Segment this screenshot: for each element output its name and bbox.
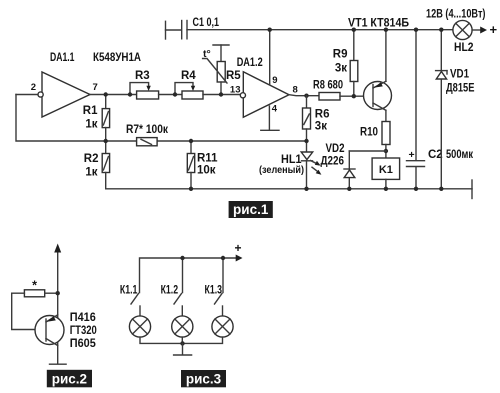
svg-text:R11: R11 <box>197 153 218 165</box>
svg-text:VD1: VD1 <box>450 69 470 81</box>
svg-text:R4: R4 <box>181 70 196 82</box>
svg-text:4: 4 <box>272 104 278 115</box>
svg-text:рис.2: рис.2 <box>52 371 87 386</box>
svg-text:R5: R5 <box>226 70 241 82</box>
svg-text:(зеленый): (зеленый) <box>259 164 304 176</box>
svg-text:C2: C2 <box>428 149 443 161</box>
svg-text:3к: 3к <box>315 121 327 133</box>
svg-text:К1.1: К1.1 <box>120 285 138 297</box>
svg-text:1к: 1к <box>85 119 97 131</box>
svg-text:R10: R10 <box>360 127 378 139</box>
svg-text:R8 680: R8 680 <box>313 80 343 92</box>
svg-text:8: 8 <box>293 84 298 95</box>
svg-text:R7* 100к: R7* 100к <box>126 124 168 136</box>
svg-text:+: + <box>234 241 241 255</box>
svg-text:VD2: VD2 <box>326 143 345 155</box>
svg-text:13: 13 <box>230 85 241 96</box>
svg-text:К1.2: К1.2 <box>161 285 179 297</box>
svg-text:+: + <box>409 149 415 161</box>
svg-text:R6: R6 <box>315 109 330 121</box>
svg-text:DA1.2: DA1.2 <box>237 57 263 69</box>
svg-text:П416: П416 <box>70 312 96 324</box>
svg-text:П605: П605 <box>70 338 97 350</box>
svg-text:2: 2 <box>31 82 36 93</box>
svg-text:12В (4...10Вт): 12В (4...10Вт) <box>426 9 486 21</box>
svg-text:500мк: 500мк <box>446 149 473 161</box>
svg-text:HL2: HL2 <box>454 42 474 54</box>
svg-text:рис.3: рис.3 <box>186 371 222 386</box>
svg-text:3к: 3к <box>335 63 347 75</box>
svg-text:R1: R1 <box>83 105 98 117</box>
svg-text:ГТ320: ГТ320 <box>70 325 97 337</box>
svg-text:1к: 1к <box>85 167 97 179</box>
svg-text:9: 9 <box>272 75 277 86</box>
svg-text:K1: K1 <box>379 164 393 176</box>
svg-text:R2: R2 <box>84 153 99 165</box>
svg-text:рис.1: рис.1 <box>233 202 269 217</box>
svg-text:Д226: Д226 <box>321 156 345 168</box>
svg-text:C1 0,1: C1 0,1 <box>193 17 220 29</box>
svg-text:К548УН1А: К548УН1А <box>93 52 141 64</box>
svg-text:R3: R3 <box>135 70 150 82</box>
svg-text:+: + <box>490 22 498 37</box>
svg-text:VT1 КТ814Б: VT1 КТ814Б <box>348 18 409 30</box>
svg-text:t°: t° <box>203 48 211 60</box>
svg-text:7: 7 <box>93 82 98 93</box>
svg-text:DA1.1: DA1.1 <box>50 52 75 64</box>
svg-text:10к: 10к <box>197 165 216 177</box>
svg-text:*: * <box>32 279 37 293</box>
svg-text:К1.3: К1.3 <box>205 285 223 297</box>
svg-text:Д815Е: Д815Е <box>446 83 475 95</box>
svg-text:R9: R9 <box>333 49 348 61</box>
